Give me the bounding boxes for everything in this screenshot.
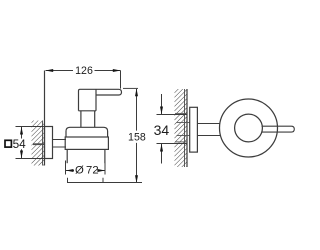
svg-text:34: 34 bbox=[154, 122, 170, 138]
svg-text:Ø 72: Ø 72 bbox=[75, 165, 99, 177]
svg-text:54: 54 bbox=[13, 137, 27, 151]
svg-text:126: 126 bbox=[75, 65, 93, 77]
svg-text:158: 158 bbox=[128, 131, 146, 143]
